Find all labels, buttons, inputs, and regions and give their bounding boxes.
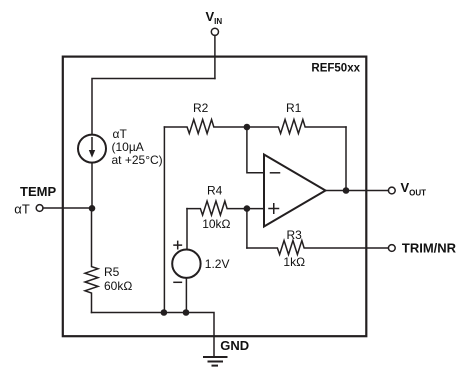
node inverting input junction <box>244 124 251 131</box>
svg-text:REF50xx: REF50xx <box>311 63 360 75</box>
node output junction <box>343 187 350 194</box>
svg-text:1kΩ: 1kΩ <box>283 255 305 269</box>
terminal TRIM/NR <box>388 245 395 252</box>
node junction R2 leg / rail <box>161 309 168 316</box>
wire current source to TEMP node <box>91 163 93 209</box>
svg-text:TEMP: TEMP <box>20 184 56 199</box>
svg-text:αT: αT <box>14 202 30 217</box>
resistor R3 <box>247 241 389 255</box>
svg-text:R3: R3 <box>287 228 303 242</box>
svg-text:(10µA: (10µA <box>112 140 144 154</box>
op-amp U1 <box>264 155 326 227</box>
resistor R2 <box>164 120 247 134</box>
ground <box>204 356 227 358</box>
op-amp minus sign <box>271 172 280 174</box>
wire TEMP to node <box>43 207 92 209</box>
wire noninverting node to R3 <box>246 209 248 248</box>
1.2V plus sign <box>174 241 181 248</box>
wire R4 to 1.2V source <box>186 209 188 250</box>
svg-text:60kΩ: 60kΩ <box>104 279 132 293</box>
wire 1.2V to rail <box>185 278 187 313</box>
current source aT <box>78 135 106 163</box>
svg-text:R5: R5 <box>104 265 120 279</box>
wire output <box>326 190 389 192</box>
svg-text:R1: R1 <box>286 101 302 115</box>
svg-text:at +25°C): at +25°C) <box>112 153 163 167</box>
op-amp plus sign <box>269 204 279 213</box>
wire R1 to output node <box>345 127 347 191</box>
terminal TEMP <box>36 205 43 212</box>
node TEMP junction <box>89 205 96 212</box>
voltage source 1.2V <box>172 250 200 278</box>
wire R2 ground leg <box>163 127 165 313</box>
node junction 1.2V source / rail <box>183 309 190 316</box>
wire inverting input <box>247 127 264 173</box>
svg-text:TRIM/NR: TRIM/NR <box>402 240 457 255</box>
wire ground rail <box>92 313 215 358</box>
node noninverting junction <box>244 205 251 212</box>
svg-text:GND: GND <box>220 338 249 353</box>
terminal VIN <box>211 28 218 35</box>
svg-text:1.2V: 1.2V <box>205 257 230 271</box>
resistor R4 <box>187 201 247 215</box>
resistor R1 <box>247 120 346 134</box>
wire noninverting input <box>247 208 264 210</box>
wire VIN rail to current source <box>92 79 215 135</box>
svg-text:R2: R2 <box>193 101 209 115</box>
svg-text:10kΩ: 10kΩ <box>202 217 230 231</box>
box outline REF50xx <box>63 57 367 337</box>
1.2V minus sign <box>174 281 181 283</box>
wire VIN down into box <box>214 35 216 78</box>
resistor R5 <box>85 209 98 313</box>
terminal VOUT <box>388 187 395 194</box>
svg-text:R4: R4 <box>207 184 223 198</box>
